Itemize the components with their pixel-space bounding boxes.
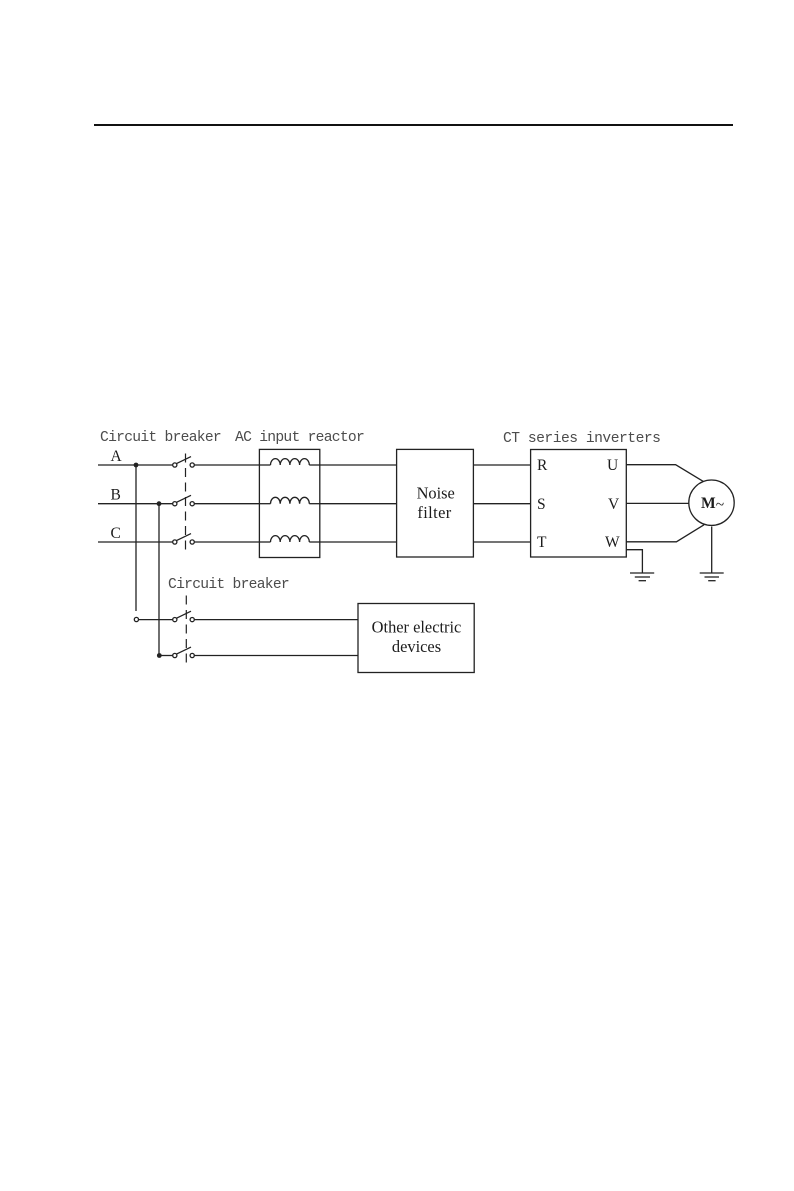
AC input reactor box	[259, 449, 319, 557]
wire: motor to ground	[711, 526, 713, 572]
wire: phase B breaker to reactor	[194, 503, 259, 505]
CT series inverter box U1	[531, 450, 627, 558]
wire: tap B to breaker pole 5	[159, 655, 172, 657]
wire: tap from node A down	[135, 465, 137, 611]
wire: phase A breaker to reactor	[194, 464, 259, 466]
header rule	[94, 124, 733, 126]
breaker pole 2 (phase B)	[173, 495, 195, 506]
wire: inverter ground stub	[626, 550, 642, 573]
svg-text:U: U	[607, 457, 618, 474]
node label B	[111, 487, 121, 504]
wire: reactor inner stubs phase C	[259, 541, 319, 543]
wire: reactor to noise filter phase B	[320, 503, 397, 505]
node label A	[111, 448, 123, 465]
svg-text:~: ~	[716, 496, 724, 513]
label: Circuit breaker (lower)	[168, 577, 289, 593]
pin label T	[537, 534, 547, 551]
svg-text:T: T	[537, 534, 547, 551]
wire: tap A to breaker pole 4	[139, 619, 173, 621]
wire: phase A from source to breaker	[98, 464, 173, 466]
wire: inverter W to motor	[626, 525, 704, 542]
breaker pole 5	[173, 647, 195, 658]
wire: noise filter to inverter S	[473, 503, 530, 505]
label: CT series inverters	[503, 431, 660, 447]
wire: phase C from source to breaker	[98, 541, 173, 543]
breaker linkage (dashed)	[185, 454, 187, 552]
svg-text:W: W	[605, 534, 620, 551]
other electric devices box	[358, 604, 474, 673]
node label C	[111, 525, 121, 542]
node: junction at tap B bottom	[157, 653, 162, 658]
terminal circle (tap A)	[134, 617, 138, 621]
breaker linkage 2 (dashed)	[185, 596, 187, 667]
wire: noise filter to inverter R	[473, 464, 530, 466]
wire: phase B from source to breaker	[98, 503, 173, 505]
svg-text:V: V	[608, 496, 620, 513]
wire: inverter V to motor	[626, 502, 689, 504]
breaker pole 1 (phase A)	[173, 457, 195, 468]
svg-text:filter: filter	[417, 503, 451, 522]
noise filter box	[397, 449, 474, 557]
ground (inverter)	[630, 573, 654, 581]
wire: noise filter to inverter T	[473, 541, 530, 543]
wire: inverter U to motor	[626, 465, 703, 482]
ground (motor)	[700, 573, 724, 581]
svg-text:M: M	[701, 495, 716, 512]
breaker pole 3 (phase C)	[173, 534, 195, 545]
wire: tap from node B down	[158, 504, 160, 656]
node: junction on phase B	[157, 501, 162, 506]
wire: reactor inner stubs phase B	[259, 503, 319, 505]
label: Circuit breaker (top)	[100, 430, 221, 446]
svg-text:S: S	[537, 496, 546, 513]
svg-text:Circuit breaker: Circuit breaker	[168, 577, 289, 593]
label: AC input reactor	[235, 430, 364, 446]
svg-text:A: A	[111, 448, 123, 465]
svg-text:CT series inverters: CT series inverters	[503, 431, 660, 447]
svg-text:B: B	[111, 487, 121, 504]
svg-text:devices: devices	[392, 637, 441, 656]
pin label W	[605, 534, 620, 551]
wire: phase C breaker to reactor	[194, 541, 259, 543]
pin label R	[537, 457, 548, 474]
node: junction on phase A	[134, 463, 139, 468]
wire: breaker 4 to other devices box	[194, 619, 358, 621]
wire: reactor to noise filter phase A	[320, 464, 397, 466]
svg-text:Noise: Noise	[417, 483, 455, 502]
svg-text:C: C	[111, 525, 121, 542]
svg-text:R: R	[537, 457, 548, 474]
pin label U	[607, 457, 618, 474]
inductor coil phase B	[271, 497, 310, 503]
svg-text:Other electric: Other electric	[372, 617, 462, 636]
wire: reactor to noise filter phase C	[320, 541, 397, 543]
pin label V	[608, 496, 620, 513]
breaker pole 4	[173, 611, 195, 622]
wire: breaker 5 to other devices box	[194, 655, 358, 657]
motor M circle	[689, 480, 734, 525]
inductor coil phase A	[271, 459, 310, 465]
wire: reactor inner stubs phase A	[259, 464, 319, 466]
svg-text:AC input reactor: AC input reactor	[235, 430, 364, 446]
svg-text:Circuit breaker: Circuit breaker	[100, 430, 221, 446]
inductor coil phase C	[271, 536, 310, 542]
pin label S	[537, 496, 546, 513]
